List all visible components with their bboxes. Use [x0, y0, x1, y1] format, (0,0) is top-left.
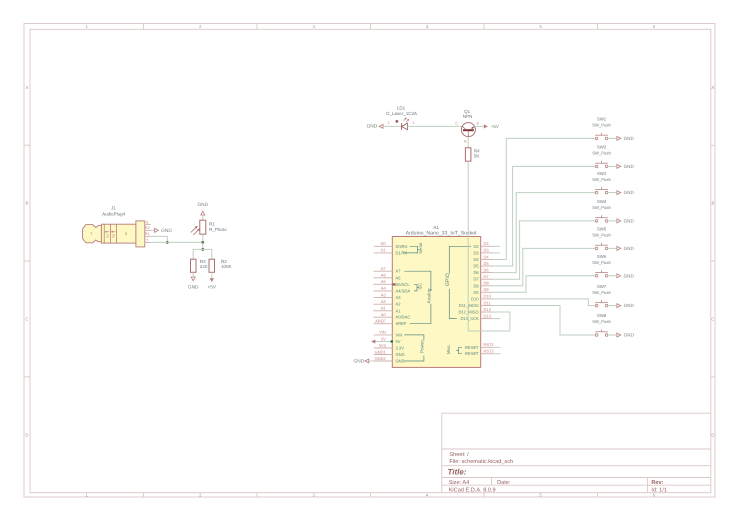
svg-text:R1: R1	[105, 233, 109, 237]
wire SW5 to GND	[608, 247, 616, 249]
svg-text:3.3V: 3.3V	[396, 346, 405, 351]
svg-text:GND: GND	[624, 164, 635, 169]
junction at 5V pin	[390, 340, 393, 343]
svg-text:D0: D0	[381, 241, 387, 246]
svg-text:GND: GND	[624, 190, 635, 195]
A1 reference and value labels	[406, 225, 478, 237]
wire D13 stub	[493, 318, 501, 320]
wire LD1 pin 2 to Q1 collector	[407, 125, 462, 127]
svg-text:Arduino_Nano_33_IoT_Socket: Arduino_Nano_33_IoT_Socket	[406, 231, 478, 237]
svg-text:R_Photo: R_Photo	[209, 227, 227, 232]
svg-text:VIN: VIN	[396, 332, 403, 337]
svg-text:D8: D8	[484, 281, 490, 286]
resistor R1 R_Photo	[191, 220, 206, 235]
svg-text:Sheet: /: Sheet: /	[449, 451, 469, 458]
wire node to R3	[193, 249, 203, 259]
junction divider node	[201, 248, 204, 251]
switch SW3 SW_Push	[592, 171, 611, 194]
wire D8 to SW5	[493, 248, 596, 285]
svg-text:A3: A3	[381, 292, 387, 297]
wire SW3 to GND	[608, 192, 616, 194]
svg-text:SW_Push: SW_Push	[592, 177, 611, 182]
svg-text:AREF: AREF	[375, 319, 386, 324]
svg-text:5K: 5K	[474, 154, 480, 159]
power GND at LD1 anode side	[367, 123, 383, 129]
power GND at SW4	[617, 219, 635, 224]
wire D5 to SW2	[493, 166, 596, 266]
A1 left pin stubs serial D0 D1	[374, 246, 393, 253]
svg-text:D12: D12	[484, 307, 492, 312]
wire D11 to SW8	[493, 306, 596, 336]
svg-text:SW_Push: SW_Push	[592, 233, 611, 238]
svg-text:D7: D7	[484, 274, 490, 279]
svg-text:J1: J1	[111, 206, 116, 211]
wire D4 to SW1	[493, 138, 596, 259]
svg-text:1: 1	[388, 121, 390, 125]
J1 pin stubs and pin names	[145, 220, 151, 242]
resistor R4	[465, 148, 471, 161]
svg-text:GND2: GND2	[375, 356, 387, 361]
svg-text:GND: GND	[396, 352, 405, 357]
svg-text:100K: 100K	[221, 264, 232, 269]
switch SW8 SW_Push	[592, 313, 611, 336]
svg-text:Misc.: Misc.	[446, 344, 451, 354]
wire SW6 to GND	[608, 275, 616, 277]
svg-text:D_Laser_1C2A: D_Laser_1C2A	[386, 111, 417, 116]
svg-text:KiCad E.D.A. 8.0.9: KiCad E.D.A. 8.0.9	[449, 486, 496, 493]
wire node down to divider node	[202, 242, 204, 249]
svg-text:D4: D4	[484, 254, 490, 259]
power GND below R3	[188, 277, 199, 290]
svg-text:Id: 1/1: Id: 1/1	[651, 486, 667, 493]
wire SW7 to GND	[608, 305, 616, 307]
svg-text:A: A	[711, 85, 714, 90]
svg-text:SW_Push: SW_Push	[592, 319, 611, 324]
svg-text:SW_Push: SW_Push	[592, 151, 611, 156]
power +5V below R2	[207, 279, 216, 291]
svg-text:GND: GND	[161, 228, 172, 234]
power GND at SW7	[617, 303, 635, 308]
svg-text:RST2: RST2	[484, 349, 495, 354]
wire RST1 stub	[493, 346, 501, 348]
svg-text:SW6: SW6	[597, 254, 607, 259]
svg-text:R2: R2	[145, 226, 150, 230]
LD1 reference and value labels	[386, 105, 417, 116]
svg-text:GND: GND	[367, 123, 378, 129]
svg-text:A3: A3	[396, 295, 402, 300]
svg-text:C: C	[25, 316, 28, 321]
A1 I2C group bracket	[414, 283, 423, 291]
power +5V at Q1	[484, 124, 499, 129]
svg-text:I2C: I2C	[418, 283, 423, 290]
wire SW8 to GND	[608, 334, 616, 336]
svg-text:T: T	[90, 232, 92, 236]
svg-text:2: 2	[413, 121, 415, 125]
svg-text:SW8: SW8	[597, 313, 607, 318]
A1 RESET pin stubs	[481, 347, 493, 353]
svg-text:D8: D8	[473, 283, 479, 288]
svg-text:GPIO: GPIO	[445, 273, 451, 286]
power GND at SW8	[617, 333, 635, 338]
svg-text:LD1: LD1	[397, 105, 406, 110]
wire Q1 emitter to +5V	[475, 125, 484, 127]
svg-text:SW4: SW4	[597, 199, 607, 204]
svg-text:RESET: RESET	[465, 345, 479, 350]
svg-text:D: D	[711, 432, 714, 437]
svg-text:3V3: 3V3	[379, 343, 387, 348]
svg-text:Power: Power	[420, 340, 425, 353]
R4 reference and value labels	[474, 149, 480, 159]
svg-text:RST1: RST1	[484, 342, 495, 347]
svg-text:GND: GND	[624, 333, 635, 338]
wire D6 to SW3	[493, 193, 596, 273]
R2 reference and value labels	[221, 259, 232, 269]
power +5V flag on 5V pin	[372, 340, 392, 343]
svg-text:R2: R2	[112, 233, 116, 237]
wire RST2 stub	[493, 353, 501, 355]
switch SW6 SW_Push	[592, 254, 611, 277]
svg-text:A1: A1	[433, 225, 439, 230]
svg-text:Analog: Analog	[427, 288, 433, 303]
svg-text:GND: GND	[624, 136, 635, 141]
svg-text:D9: D9	[473, 290, 479, 295]
svg-text:GND1: GND1	[375, 349, 387, 354]
svg-text:D5: D5	[473, 264, 479, 269]
J1 reference and value labels	[102, 206, 126, 217]
wire D7 to SW4	[493, 221, 596, 279]
wire GND to LD1 pin 1	[384, 125, 402, 127]
J1 internal labels T R1 R2 S	[90, 232, 127, 238]
power GND at SW2	[617, 164, 635, 169]
svg-text:Serial: Serial	[418, 243, 423, 254]
laser diode LD1	[396, 118, 410, 130]
A1 GPIO pin names	[458, 244, 479, 321]
svg-text:SW_Push: SW_Push	[592, 290, 611, 295]
svg-text:NPN: NPN	[463, 114, 473, 119]
svg-text:5V: 5V	[396, 339, 401, 344]
svg-text:File: schematic.kicad_sch: File: schematic.kicad_sch	[449, 458, 513, 465]
svg-text:SW3: SW3	[597, 171, 607, 176]
Q1 reference and value labels	[463, 109, 473, 119]
svg-text:SW_Push: SW_Push	[592, 260, 611, 265]
IC A1 Arduino_Nano_33_IoT_Socket body	[392, 237, 480, 368]
svg-text:Title:: Title:	[448, 468, 467, 477]
wire D2 stub	[493, 245, 501, 247]
svg-text:D7: D7	[473, 277, 479, 282]
switch SW2 SW_Push	[592, 145, 611, 168]
svg-text:A: A	[25, 85, 28, 90]
power GND at SW3	[617, 190, 635, 195]
wire D3 stub	[493, 252, 501, 254]
svg-text:D13: D13	[484, 313, 492, 318]
A1 Serial group bracket	[403, 243, 423, 254]
svg-text:C: C	[711, 316, 714, 321]
power GND at SW1	[617, 136, 635, 141]
svg-text:D2: D2	[484, 241, 490, 246]
wire node to R2	[203, 249, 212, 259]
svg-text:A6: A6	[381, 273, 387, 278]
switch SW5 SW_Push	[592, 227, 611, 250]
wire J1 pin R1 down to node T	[151, 236, 167, 242]
svg-text:SW1: SW1	[597, 117, 607, 122]
switch SW1 SW_Push	[592, 117, 611, 140]
svg-text:D10: D10	[471, 296, 479, 301]
svg-text:GND: GND	[188, 284, 199, 290]
power GND at J1 pin R2	[151, 228, 172, 234]
svg-text:R1: R1	[145, 232, 150, 236]
svg-text:A6: A6	[396, 275, 402, 280]
A1 Analog group bracket	[404, 271, 432, 324]
svg-text:SW_Push: SW_Push	[592, 205, 611, 210]
wire J1 pin T to photoresistor node	[151, 241, 203, 243]
wire GND2 pin to GND	[369, 360, 373, 362]
resistor R3	[191, 259, 197, 272]
svg-text:GND: GND	[624, 303, 635, 308]
A1 RESET pin names	[465, 345, 479, 356]
A1 Power group bracket	[404, 335, 424, 361]
svg-text:GND: GND	[624, 273, 635, 278]
svg-text:220: 220	[200, 264, 208, 269]
J1 wiper arrows	[105, 231, 116, 232]
resistor R2	[209, 259, 215, 272]
connector J1 AudioPlug4	[83, 221, 145, 247]
svg-text:Date:: Date:	[497, 480, 511, 486]
transistor Q1 NPN	[461, 123, 475, 137]
svg-text:D6: D6	[484, 267, 490, 272]
svg-text:+5V: +5V	[207, 284, 216, 290]
svg-text:D9: D9	[484, 287, 490, 292]
svg-text:SW_Push: SW_Push	[592, 123, 611, 128]
wire SW4 to GND	[608, 220, 616, 222]
power GND at SW5	[617, 246, 635, 251]
junction at R1/T wire	[166, 241, 169, 244]
svg-text:A2: A2	[381, 299, 387, 304]
wire Q1 base to R4	[467, 137, 469, 148]
svg-text:5V: 5V	[381, 336, 386, 341]
svg-text:D6: D6	[473, 270, 479, 275]
svg-text:D4: D4	[473, 257, 479, 262]
A1 GPIO group bracket	[445, 246, 471, 318]
svg-text:A1: A1	[396, 308, 402, 313]
svg-text:Rev:: Rev:	[651, 480, 663, 486]
svg-text:AREF: AREF	[396, 321, 407, 326]
power GND at GND2 pin	[354, 358, 369, 364]
wire SW2 to GND	[608, 165, 616, 167]
svg-text:A2: A2	[396, 302, 402, 307]
svg-text:A7: A7	[381, 266, 387, 271]
A1 power pin names	[396, 332, 405, 363]
svg-text:A5: A5	[381, 279, 387, 284]
svg-text:D3: D3	[484, 248, 490, 253]
svg-text:GND: GND	[396, 359, 405, 364]
A1 left pin stubs power	[374, 335, 393, 361]
power GND at SW6	[617, 273, 635, 278]
svg-text:GND: GND	[624, 246, 635, 251]
svg-text:AudioPlug4: AudioPlug4	[102, 212, 126, 217]
svg-text:D5: D5	[484, 261, 490, 266]
svg-text:D3: D3	[473, 250, 479, 255]
svg-text:GND: GND	[354, 358, 365, 364]
svg-text:SW7: SW7	[597, 284, 607, 289]
wire R1 bottom to node	[202, 234, 204, 242]
svg-text:A4: A4	[381, 286, 387, 291]
svg-text:D11_MOSI: D11_MOSI	[459, 303, 479, 308]
junction R1/T node	[201, 241, 204, 244]
svg-text:GND: GND	[197, 202, 208, 208]
A1 analog pin names	[396, 269, 411, 327]
wire D12 to R4 via loop	[468, 161, 510, 331]
svg-text:SW2: SW2	[597, 145, 607, 150]
svg-text:D10: D10	[484, 294, 492, 299]
svg-text:+5V: +5V	[491, 124, 499, 129]
svg-text:VIN: VIN	[379, 330, 386, 335]
svg-text:D0/RX: D0/RX	[396, 244, 408, 249]
svg-text:GND: GND	[624, 219, 635, 224]
title block	[442, 413, 711, 493]
R1 reference and value labels	[209, 222, 227, 232]
A1 right pin stubs GPIO	[481, 246, 493, 318]
switch SW7 SW_Push	[592, 284, 611, 307]
svg-text:A1: A1	[381, 306, 387, 311]
svg-text:D13_SCK: D13_SCK	[460, 316, 478, 321]
wire D9 to SW6	[493, 276, 596, 293]
svg-text:A0: A0	[381, 312, 387, 317]
svg-text:A4/SDA: A4/SDA	[396, 288, 411, 293]
svg-text:A5/SCL: A5/SCL	[396, 282, 411, 287]
wire D10 to SW7	[493, 299, 596, 306]
svg-text:RESET: RESET	[465, 351, 479, 356]
svg-text:D2: D2	[473, 244, 479, 249]
svg-text:B: B	[25, 201, 28, 206]
wire SW1 to GND	[608, 137, 616, 139]
A1 pin names D0/RX D1/TX	[396, 244, 408, 256]
svg-text:SW5: SW5	[597, 227, 607, 232]
svg-text:Size: A4: Size: A4	[449, 479, 470, 486]
svg-text:Q1: Q1	[464, 109, 471, 114]
wire R2 to +5V	[211, 272, 213, 277]
R3 reference and value labels	[200, 259, 208, 269]
svg-text:D: D	[25, 432, 28, 437]
A5 inverted pin mark	[393, 283, 396, 285]
svg-text:B: B	[711, 201, 714, 206]
Q1 pin letters C E B	[455, 121, 479, 143]
svg-text:D11: D11	[484, 300, 492, 305]
svg-text:D1: D1	[381, 248, 387, 253]
wire R3 to GND	[192, 272, 194, 276]
power GND above R1	[197, 202, 208, 215]
A1 left pin stubs analog	[373, 271, 392, 324]
svg-text:A7: A7	[396, 269, 402, 274]
svg-text:A0/DAC: A0/DAC	[396, 315, 411, 320]
switch SW4 SW_Push	[592, 199, 611, 222]
wire GND to R1 top	[202, 216, 204, 221]
A1 Misc group bracket	[446, 344, 462, 354]
